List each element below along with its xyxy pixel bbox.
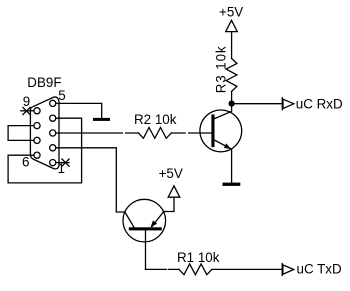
svg-text:5: 5 [58, 88, 65, 103]
transistor Q1 base bar [211, 114, 214, 147]
wire base to R1 [146, 268, 180, 270]
svg-text:+5V: +5V [219, 5, 243, 20]
resistor R1 [179, 264, 212, 275]
transistor Q1 collector lead [215, 104, 232, 119]
connector J1 DB9F outline [30, 97, 59, 169]
power +5V arrow bottom [168, 186, 180, 197]
pin 2 [50, 145, 56, 151]
transistor Q1 emitter arrow [224, 143, 231, 149]
wire pin5 to ground [56, 103, 102, 118]
pin 3 [50, 130, 56, 136]
pin 6 [34, 152, 40, 158]
wire pin9 stub [21, 110, 34, 112]
transistor Q2 body [123, 199, 166, 242]
wire pin8-pin7 loop [8, 126, 34, 141]
wire R2 to Q1 base [171, 132, 211, 134]
svg-text:+5V: +5V [159, 166, 183, 181]
wire +5V to R3 [231, 32, 233, 59]
wire R3 to junction [231, 91, 233, 103]
wire pin1 stub [56, 162, 69, 164]
svg-text:R2 10k: R2 10k [134, 112, 177, 127]
pin 8 [34, 123, 40, 129]
pin 9 [34, 108, 40, 114]
wire Q2 base down [145, 230, 147, 269]
svg-text:9: 9 [23, 94, 30, 109]
output arrow uC TxD [281, 264, 283, 276]
power +5V arrow top [226, 20, 238, 31]
wire R1 to uC TxD arrow [212, 268, 282, 270]
output arrow uC RxD [281, 98, 283, 110]
ground symbol at pin 5 [93, 118, 110, 121]
pin 4 [50, 115, 56, 121]
transistor Q2 emitter arrow [151, 220, 158, 227]
svg-text:6: 6 [22, 154, 29, 169]
wire pin2 to Q2 collector [56, 148, 125, 212]
wire Q2 emitter to +5V [164, 197, 174, 211]
ground symbol at Q1 emitter [223, 183, 241, 186]
transistor Q1 emitter lead [215, 140, 232, 183]
wire pin3 to R2 [56, 132, 139, 134]
svg-text:DB9F: DB9F [27, 75, 61, 90]
transistor Q2 base bar [129, 227, 162, 230]
svg-text:uC RxD: uC RxD [296, 96, 343, 111]
svg-text:R3 10k: R3 10k [214, 45, 229, 93]
junction node [229, 101, 235, 107]
wire pin6 to pin4 bottom loop [8, 118, 82, 183]
transistor Q1 body [200, 110, 242, 152]
no-connect X on pin 9 [23, 107, 30, 114]
pin 5 [50, 100, 56, 106]
resistor R3 [226, 59, 237, 92]
transistor Q2 collector lead [125, 212, 134, 227]
resistor R2 [138, 128, 171, 139]
svg-text:R1 10k: R1 10k [177, 250, 220, 265]
wire junction to uC RxD arrow [232, 103, 283, 105]
no-connect X on pin 1 [62, 159, 69, 166]
svg-text:uC TxD: uC TxD [297, 261, 342, 276]
pin 1 [50, 160, 56, 166]
transistor Q2 emitter lead [152, 212, 164, 227]
pin 7 [34, 137, 40, 143]
